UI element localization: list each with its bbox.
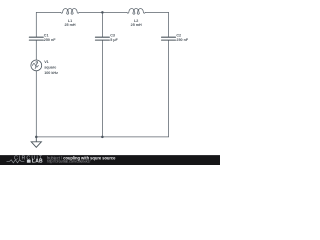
wire bottom rail bbox=[36, 136, 168, 138]
svg-text:L2: L2 bbox=[134, 19, 138, 23]
capacitor C2 bbox=[162, 37, 176, 40]
svg-text:L1: L1 bbox=[68, 19, 72, 23]
wire top middle segment bbox=[79, 11, 127, 13]
capacitor C3 bbox=[95, 37, 109, 40]
inductor L2 bbox=[127, 8, 145, 14]
node junction bottom left bbox=[35, 136, 38, 139]
wire left rail upper bbox=[35, 12, 37, 36]
wire right rail lower bbox=[168, 41, 170, 137]
wire top right segment bbox=[145, 11, 168, 13]
svg-text:V1: V1 bbox=[44, 60, 49, 64]
wire right rail upper bbox=[168, 12, 170, 36]
wire top left segment bbox=[36, 11, 61, 13]
svg-text:25 mH: 25 mH bbox=[64, 23, 75, 27]
wire middle rail upper bbox=[101, 12, 103, 36]
svg-text:5 μF: 5 μF bbox=[110, 38, 118, 42]
svg-text:100 kHz: 100 kHz bbox=[44, 71, 58, 75]
wire V1 to bottom bbox=[35, 71, 37, 137]
footer text bbox=[47, 156, 116, 164]
svg-text:http://circuitlab.com/cuiebek2: http://circuitlab.com/cuiebek2/ bbox=[47, 160, 91, 164]
inductor L1 bbox=[61, 8, 79, 14]
ground bbox=[31, 137, 41, 147]
footer bar bbox=[0, 155, 220, 165]
wire C1 to V1 bbox=[35, 41, 37, 60]
node junction top middle bbox=[101, 11, 104, 14]
svg-text:25 mH: 25 mH bbox=[131, 23, 142, 27]
svg-text:square: square bbox=[44, 66, 56, 70]
capacitor C1 bbox=[29, 37, 43, 40]
node junction bottom middle bbox=[101, 136, 104, 139]
svg-text:250 nF: 250 nF bbox=[176, 38, 188, 42]
wire middle rail lower bbox=[101, 41, 103, 137]
svg-text:250 nF: 250 nF bbox=[44, 38, 56, 42]
svg-text:LAB: LAB bbox=[32, 159, 43, 165]
logo CircuitLab bbox=[7, 155, 44, 164]
source V1 bbox=[31, 60, 42, 71]
labels bbox=[44, 19, 189, 75]
